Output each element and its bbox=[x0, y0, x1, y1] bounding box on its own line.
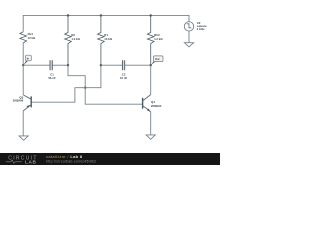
svg-text:LAB: LAB bbox=[25, 159, 36, 164]
node Out bbox=[150, 64, 152, 66]
resistor R1 bbox=[98, 16, 105, 66]
capacitor C1 bbox=[50, 60, 52, 70]
transistor Q1 bbox=[143, 65, 151, 135]
svg-text:Q1: Q1 bbox=[151, 100, 155, 104]
flag Out bbox=[151, 56, 163, 65]
wire node A jog down to node B bbox=[68, 65, 85, 88]
svg-text:1 kHz: 1 kHz bbox=[197, 27, 205, 31]
node rail-R2 bbox=[67, 14, 69, 16]
wire node B right up to node C bbox=[85, 65, 101, 88]
wire node B down to Q1 base bbox=[85, 88, 142, 105]
wire V2 to ground bbox=[188, 31, 190, 43]
node rail-R1 bbox=[100, 14, 102, 16]
node C (R1 bottom) bbox=[100, 64, 102, 66]
svg-text:http://circuitlab.com/c45t9b2: http://circuitlab.com/c45t9b2 bbox=[46, 160, 96, 164]
svg-text:Out: Out bbox=[155, 57, 160, 61]
wire In to C1 bbox=[23, 64, 50, 66]
wire node B left to Q3 base bbox=[31, 88, 85, 103]
node In bbox=[22, 64, 24, 66]
wire C1 to node A bbox=[53, 64, 69, 66]
wire node C to C2 bbox=[101, 64, 122, 66]
wire top rail bbox=[23, 15, 189, 31]
resistor Ru1 bbox=[20, 32, 27, 43]
flag In bbox=[23, 55, 31, 65]
svg-text:1.2 kΩ: 1.2 kΩ bbox=[154, 37, 163, 41]
ground (Q3 emitter) bbox=[19, 136, 28, 140]
wire Ru1 to In node bbox=[22, 43, 24, 65]
voltage source V2 bbox=[184, 22, 193, 31]
svg-text:catalUznr / Lab 8: catalUznr / Lab 8 bbox=[46, 154, 83, 159]
footer bar bbox=[0, 153, 220, 165]
svg-text:2N3906: 2N3906 bbox=[13, 98, 24, 102]
resistor RC2 bbox=[147, 16, 154, 66]
resistor R2 bbox=[65, 16, 72, 66]
svg-text:56 nF: 56 nF bbox=[48, 76, 56, 80]
node B bbox=[84, 87, 86, 89]
svg-text:10 kΩ: 10 kΩ bbox=[104, 37, 112, 41]
svg-text:1.2 kΩ: 1.2 kΩ bbox=[71, 37, 80, 41]
ground (V2) bbox=[184, 43, 193, 47]
capacitor C2 bbox=[122, 60, 124, 70]
transistor Q3 bbox=[23, 65, 31, 136]
svg-text:2N3904: 2N3904 bbox=[151, 104, 162, 108]
node rail-RC2 bbox=[150, 14, 152, 16]
svg-text:12 kΩ: 12 kΩ bbox=[28, 36, 36, 40]
ground (Q1 emitter) bbox=[146, 135, 155, 139]
svg-text:10 nF: 10 nF bbox=[120, 76, 128, 80]
svg-text:In: In bbox=[27, 56, 30, 60]
wire C2 to Out node bbox=[125, 64, 151, 66]
node A (R2 bottom) bbox=[67, 64, 69, 66]
